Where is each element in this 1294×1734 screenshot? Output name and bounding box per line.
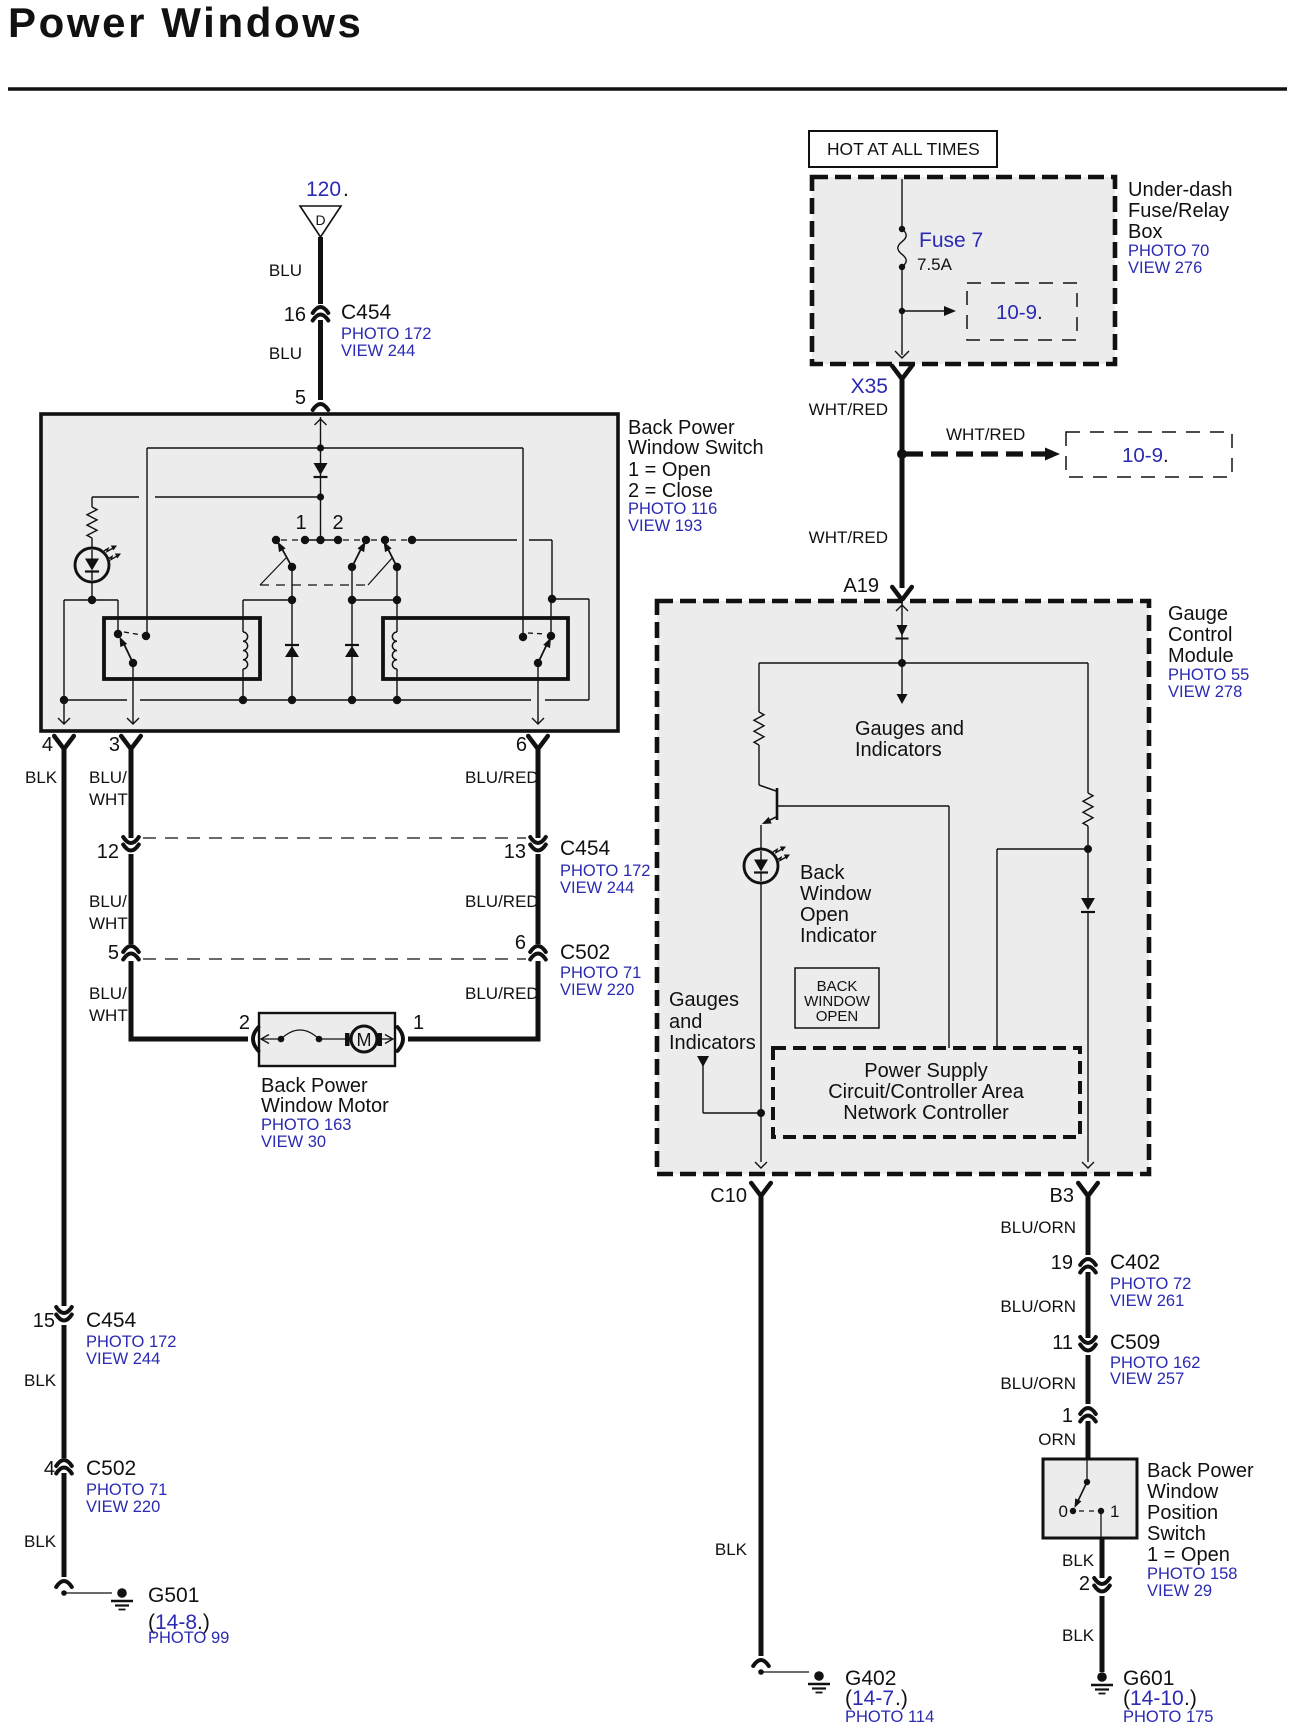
- right relay contact dashes: [528, 633, 545, 634]
- wire PS box to right branch: [996, 849, 998, 1048]
- wire pin 4 drop: [63, 700, 65, 723]
- svg-text:VIEW 278: VIEW 278: [1168, 683, 1242, 701]
- dashed wire WHT/RED to 10-9: [906, 451, 1046, 456]
- back power window motor box: [259, 1013, 395, 1066]
- svg-text:WHT: WHT: [89, 914, 128, 933]
- svg-text:Network Controller: Network Controller: [843, 1102, 1009, 1124]
- svg-text:PHOTO 55: PHOTO 55: [1168, 666, 1249, 684]
- svg-text:15: 15: [33, 1310, 55, 1332]
- ground G601: [1097, 1672, 1107, 1682]
- resistor R2: [758, 663, 760, 712]
- svg-text:C454: C454: [341, 301, 392, 324]
- svg-text:Box: Box: [1128, 221, 1162, 243]
- wire left relay arm to pin 3: [132, 663, 134, 723]
- svg-text:PHOTO 175: PHOTO 175: [1123, 1708, 1213, 1726]
- svg-text:1: 1: [295, 512, 306, 534]
- node pin5/top rail junction: [317, 444, 324, 451]
- svg-text:Window Switch: Window Switch: [628, 437, 764, 459]
- svg-text:1: 1: [413, 1012, 424, 1034]
- gauges feed arrow: [697, 1056, 709, 1067]
- svg-text:1 = Open: 1 = Open: [628, 459, 711, 481]
- svg-text:(: (: [1123, 1687, 1130, 1710]
- wire x118 down to relay contact: [117, 600, 119, 631]
- svg-text:PHOTO 72: PHOTO 72: [1110, 1275, 1191, 1293]
- svg-text:PHOTO 70: PHOTO 70: [1128, 242, 1209, 260]
- svg-text:PHOTO 158: PHOTO 158: [1147, 1565, 1237, 1583]
- svg-text:VIEW 30: VIEW 30: [261, 1133, 326, 1151]
- svg-text:2: 2: [239, 1012, 250, 1034]
- fuse box exit arrow: [895, 351, 909, 358]
- wire left contact feed x147: [146, 448, 148, 633]
- svg-text:Indicators: Indicators: [855, 739, 942, 761]
- wire BLU/RED to motor 1: [536, 961, 541, 1042]
- svg-text:C502: C502: [86, 1457, 136, 1480]
- svg-text:VIEW 193: VIEW 193: [628, 517, 702, 535]
- svg-text:WHT/RED: WHT/RED: [809, 400, 888, 419]
- svg-text:PHOTO 71: PHOTO 71: [86, 1481, 167, 1499]
- back power window switch box: [41, 414, 618, 731]
- wire BLU from D to C454 pin 16: [318, 237, 323, 304]
- svg-text:BLK: BLK: [1062, 1626, 1095, 1645]
- arrow to 10-9: [902, 310, 944, 312]
- svg-text:Position: Position: [1147, 1502, 1218, 1524]
- svg-text:Indicators: Indicators: [669, 1032, 756, 1054]
- svg-text:Switch: Switch: [1147, 1523, 1206, 1545]
- svg-text:C454: C454: [560, 837, 611, 860]
- svg-text:4: 4: [42, 734, 53, 756]
- svg-text:C454: C454: [86, 1309, 137, 1332]
- wire into fuse: [901, 179, 903, 229]
- ground G501: [56, 1581, 72, 1587]
- hot at all times box: [809, 131, 997, 167]
- back window open text box: [795, 968, 879, 1028]
- svg-text:6: 6: [516, 734, 527, 756]
- gauge control module box: [657, 601, 1149, 1174]
- svg-text:VIEW 220: VIEW 220: [86, 1498, 160, 1516]
- svg-text:BLU: BLU: [269, 261, 302, 280]
- svg-text:C502: C502: [560, 941, 610, 964]
- fuse 7: [898, 229, 906, 267]
- resistor R1 (LED dropper): [91, 497, 93, 507]
- svg-text:A19: A19: [843, 575, 879, 597]
- svg-text:VIEW 276: VIEW 276: [1128, 259, 1202, 277]
- svg-text:WHT/RED: WHT/RED: [946, 425, 1025, 444]
- left relay coil: [242, 600, 244, 632]
- svg-text:5: 5: [108, 942, 119, 964]
- node main rail junction: [898, 659, 906, 667]
- connector C454 pins 12/13: [143, 837, 526, 839]
- svg-text:14-10: 14-10: [1130, 1687, 1184, 1710]
- right relay contact B: [547, 632, 555, 640]
- power supply controller box: [773, 1048, 1080, 1137]
- wire BLK to G501: [62, 1473, 67, 1577]
- resistor R3: [1087, 663, 1089, 793]
- svg-text:Fuse/Relay: Fuse/Relay: [1128, 200, 1229, 222]
- mechanical linkage: [260, 558, 286, 585]
- svg-text:(: (: [845, 1687, 852, 1710]
- svg-text:BLU/: BLU/: [89, 984, 127, 1003]
- reference box 10-9 (right): [1066, 432, 1232, 477]
- svg-text:Back Power: Back Power: [628, 417, 735, 439]
- svg-text:BLU/ORN: BLU/ORN: [1000, 1374, 1076, 1393]
- wire LED down to C10: [760, 883, 762, 1162]
- svg-text:19: 19: [1051, 1252, 1073, 1274]
- right relay coil: [396, 600, 398, 632]
- svg-text:HOT AT ALL TIMES: HOT AT ALL TIMES: [827, 139, 980, 159]
- wire BLK pin4: [62, 747, 67, 1306]
- wire to B3: [1087, 912, 1089, 1162]
- wire right link to bottom rail: [552, 598, 589, 600]
- left relay box: [104, 618, 260, 679]
- svg-text:C10: C10: [710, 1185, 747, 1207]
- svg-text:6: 6: [515, 932, 526, 954]
- left relay arm: [123, 642, 133, 663]
- svg-text:BLU/: BLU/: [89, 768, 127, 787]
- wire y600 link arm2-arm3: [352, 599, 397, 601]
- svg-text:PHOTO 99: PHOTO 99: [148, 1629, 229, 1647]
- svg-text:and: and: [669, 1011, 702, 1033]
- wire BLU/RED pin6: [536, 747, 541, 838]
- svg-text:Window Motor: Window Motor: [261, 1095, 389, 1117]
- svg-text:VIEW 244: VIEW 244: [341, 342, 415, 360]
- wire BLU/WHT 12 to 5: [129, 854, 134, 944]
- diode D4: [1081, 898, 1095, 910]
- diode D1 on pin5 feed: [314, 463, 328, 475]
- left relay contact dashes: [124, 632, 142, 635]
- svg-text:BLU: BLU: [269, 344, 302, 363]
- switch arm 3: [387, 547, 397, 567]
- svg-text:BLU/RED: BLU/RED: [465, 892, 539, 911]
- wire BLK 15 to 4: [62, 1325, 67, 1458]
- node LED bottom junction: [88, 596, 96, 604]
- right relay contact A: [519, 633, 527, 641]
- wire arm1 to node: [291, 567, 293, 600]
- svg-text:2: 2: [332, 512, 343, 534]
- svg-text:Control: Control: [1168, 624, 1232, 646]
- svg-text:C509: C509: [1110, 1331, 1160, 1354]
- position switch internals: [1086, 1459, 1088, 1482]
- wire BLK below position switch: [1100, 1538, 1105, 1578]
- svg-text:10-9: 10-9: [1122, 444, 1163, 467]
- wire A19 feed: [901, 603, 903, 663]
- svg-text:16: 16: [284, 304, 306, 326]
- wire x551 into relay contact: [550, 599, 552, 634]
- title rule: [8, 87, 1287, 91]
- wire BLU/WHT to motor 2: [129, 961, 134, 1042]
- svg-text:BLU/ORN: BLU/ORN: [1000, 1218, 1076, 1237]
- right relay box: [383, 618, 568, 679]
- svg-text:.): .): [1184, 1687, 1197, 1710]
- svg-text:Open: Open: [800, 904, 849, 926]
- svg-text:Back Power: Back Power: [261, 1075, 368, 1097]
- svg-text:PHOTO 71: PHOTO 71: [560, 964, 641, 982]
- wire below fuse: [901, 267, 903, 355]
- svg-text:Power Windows: Power Windows: [8, 0, 363, 46]
- svg-text:12: 12: [97, 841, 119, 863]
- under-dash fuse/relay box: [812, 177, 1115, 364]
- svg-text:VIEW 257: VIEW 257: [1110, 1370, 1184, 1388]
- wire right relay arm to pin 6: [537, 663, 539, 723]
- wire pin5 feed entering box: [320, 417, 322, 540]
- svg-text:.: .: [343, 178, 349, 201]
- svg-text:G501: G501: [148, 1584, 199, 1607]
- connector X35: [892, 366, 912, 379]
- svg-text:D: D: [315, 212, 325, 228]
- svg-text:PHOTO 172: PHOTO 172: [341, 325, 431, 343]
- svg-text:X35: X35: [851, 375, 888, 398]
- svg-text:11: 11: [1052, 1332, 1073, 1354]
- svg-text:0: 0: [1059, 1502, 1068, 1521]
- svg-text:.: .: [1163, 444, 1169, 467]
- wire BLU from C454 to switch pin 5: [318, 320, 323, 400]
- wire ORN to position switch: [1086, 1421, 1091, 1459]
- right relay arm: [538, 642, 548, 663]
- wire BLU/ORN to pin 1: [1086, 1355, 1091, 1404]
- svg-text:M: M: [357, 1030, 372, 1050]
- svg-text:VIEW 261: VIEW 261: [1110, 1292, 1184, 1310]
- wire x64 down to bottom rail: [63, 600, 65, 700]
- svg-text:120: 120: [306, 178, 341, 201]
- bottom rail y700: [64, 699, 127, 701]
- wire transistor base: [777, 805, 949, 807]
- svg-text:BLU/: BLU/: [89, 892, 127, 911]
- svg-text:BLK: BLK: [24, 1371, 57, 1390]
- svg-text:Fuse 7: Fuse 7: [919, 229, 983, 252]
- svg-text:BLU/ORN: BLU/ORN: [1000, 1297, 1076, 1316]
- svg-text:ORN: ORN: [1038, 1430, 1076, 1449]
- svg-text:VIEW 244: VIEW 244: [86, 1350, 160, 1368]
- diode D2: [291, 600, 293, 700]
- wire BLU/WHT pin3: [129, 747, 134, 838]
- wire BLK C10 to G402: [759, 1194, 764, 1656]
- back power window position switch box: [1043, 1459, 1137, 1538]
- ground G402: [753, 1660, 769, 1666]
- svg-text:14-7: 14-7: [852, 1687, 894, 1710]
- wire contact row to right branch: [412, 539, 517, 541]
- svg-text:Window: Window: [800, 883, 872, 905]
- wire y600 left link: [64, 599, 118, 601]
- svg-text:PHOTO 172: PHOTO 172: [560, 862, 650, 880]
- svg-text:1: 1: [1062, 1405, 1073, 1427]
- svg-text:PHOTO 172: PHOTO 172: [86, 1333, 176, 1351]
- svg-text:Window: Window: [1147, 1481, 1219, 1503]
- wire BLU/ORN B3 to C402: [1086, 1194, 1091, 1255]
- LED back window switch illumination: [91, 538, 93, 548]
- motor M: [345, 1033, 350, 1046]
- svg-text:3: 3: [109, 734, 120, 756]
- node LED rail junction: [317, 493, 324, 500]
- wire BLU/ORN to C509: [1086, 1272, 1091, 1338]
- transistor Q1: [759, 785, 776, 791]
- svg-text:1 = Open: 1 = Open: [1147, 1544, 1230, 1566]
- wire top rail y448: [147, 447, 523, 449]
- svg-text:WHT: WHT: [89, 1006, 128, 1025]
- motor brush arc: [261, 1035, 269, 1044]
- svg-text:PHOTO 116: PHOTO 116: [628, 500, 717, 518]
- svg-text:4: 4: [44, 1458, 55, 1480]
- svg-text:7.5A: 7.5A: [917, 255, 953, 274]
- switch arm 2: [352, 547, 362, 567]
- wire arm3 to node: [396, 567, 398, 600]
- off-page connector D triangle: [300, 206, 341, 237]
- svg-text:PHOTO 114: PHOTO 114: [845, 1708, 934, 1726]
- svg-text:VIEW 29: VIEW 29: [1147, 1582, 1212, 1600]
- svg-text:VIEW 220: VIEW 220: [560, 981, 634, 999]
- svg-text:VIEW 244: VIEW 244: [560, 879, 634, 897]
- svg-text:Indicator: Indicator: [800, 925, 877, 947]
- svg-text:2: 2: [1079, 1573, 1090, 1595]
- svg-text:Circuit/Controller Area: Circuit/Controller Area: [828, 1081, 1025, 1103]
- node splice: [897, 449, 907, 459]
- svg-text:10-9: 10-9: [996, 301, 1037, 324]
- svg-text:Back: Back: [800, 862, 845, 884]
- wire WHT/RED X35 to A19: [900, 377, 905, 588]
- svg-text:13: 13: [504, 841, 526, 863]
- svg-text:Back Power: Back Power: [1147, 1460, 1254, 1482]
- wire LED rail y497: [92, 496, 139, 498]
- svg-text:5: 5: [295, 387, 306, 409]
- wire right contact feed x523: [522, 448, 524, 634]
- svg-text:Gauge: Gauge: [1168, 603, 1228, 625]
- LED back window open indicator: [744, 849, 778, 883]
- svg-text:Gauges and: Gauges and: [855, 718, 964, 740]
- svg-text:C402: C402: [1110, 1251, 1160, 1274]
- svg-text:Power Supply: Power Supply: [864, 1060, 987, 1082]
- svg-text:PHOTO 163: PHOTO 163: [261, 1116, 351, 1134]
- svg-text:Under-dash: Under-dash: [1128, 179, 1233, 201]
- left relay contact A: [114, 630, 122, 638]
- wire BLU/RED 13 to 6: [536, 854, 541, 944]
- svg-text:.): .): [895, 1687, 908, 1710]
- svg-text:BLK: BLK: [1062, 1551, 1095, 1570]
- svg-text:Gauges: Gauges: [669, 989, 739, 1011]
- reference box 10-9 (in fuse box): [967, 283, 1077, 340]
- svg-text:2 = Close: 2 = Close: [628, 480, 713, 502]
- svg-text:WHT: WHT: [89, 790, 128, 809]
- svg-text:BLU/RED: BLU/RED: [465, 984, 539, 1003]
- svg-text:Module: Module: [1168, 645, 1234, 667]
- svg-text:B3: B3: [1050, 1185, 1074, 1207]
- svg-text:OPEN: OPEN: [816, 1008, 859, 1025]
- svg-text:1: 1: [1110, 1502, 1119, 1521]
- svg-text:BLK: BLK: [715, 1540, 748, 1559]
- svg-text:.: .: [1037, 301, 1043, 324]
- diode D3: [351, 600, 353, 700]
- wire coil top link: [243, 599, 292, 601]
- switch arm 1: [281, 547, 292, 567]
- svg-text:BLK: BLK: [24, 1532, 57, 1551]
- svg-text:WHT/RED: WHT/RED: [809, 528, 888, 547]
- svg-text:BLU/RED: BLU/RED: [465, 768, 539, 787]
- wire internal rail y663: [759, 662, 1088, 664]
- wire BLK to G601: [1100, 1596, 1105, 1672]
- left relay contact B: [142, 632, 150, 640]
- arrow to gauges: [901, 663, 903, 694]
- wire arm2 to node: [351, 567, 353, 600]
- svg-text:BLK: BLK: [25, 768, 58, 787]
